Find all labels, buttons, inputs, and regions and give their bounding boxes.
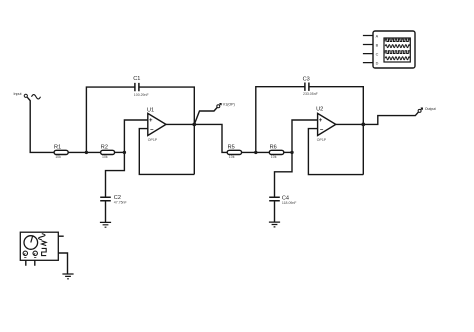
svg-text:R5: R5 [228,145,235,151]
svg-text:47.75nF: 47.75nF [114,200,127,204]
svg-text:U2: U2 [316,107,323,113]
svg-text:V1(OP): V1(OP) [223,102,235,106]
svg-text:OP1P: OP1P [317,138,327,142]
svg-text:−: − [150,127,154,133]
svg-text:OP1P: OP1P [148,138,158,142]
svg-text:U1: U1 [147,107,154,113]
svg-text:A: A [376,34,379,38]
svg-text:118.09nF: 118.09nF [282,201,297,205]
svg-text:R2: R2 [101,145,108,151]
svg-text:C3: C3 [303,77,310,83]
svg-text:Input: Input [14,92,22,96]
svg-text:B: B [376,43,379,47]
svg-text:10k: 10k [55,155,61,159]
svg-text:+: + [319,118,323,124]
svg-text:C: C [376,53,379,57]
svg-text:10k: 10k [102,155,108,159]
svg-text:Output: Output [425,107,436,111]
svg-text:10k: 10k [271,155,277,159]
svg-text:233.05nF: 233.05nF [303,92,318,96]
svg-text:10k: 10k [229,155,235,159]
svg-text:C1: C1 [133,76,140,82]
svg-text:100.29nF: 100.29nF [134,93,149,97]
svg-text:D: D [376,62,379,66]
svg-text:−: − [320,127,324,133]
svg-text:+: + [149,118,153,124]
svg-text:R6: R6 [270,145,277,151]
svg-text:R1: R1 [54,145,61,151]
